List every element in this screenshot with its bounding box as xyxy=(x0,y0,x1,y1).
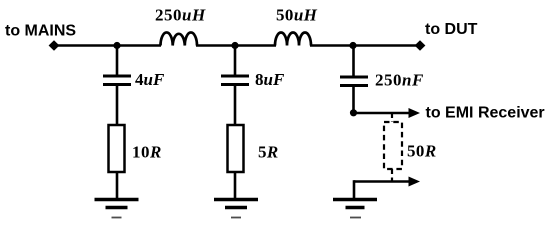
capacitor 250nF xyxy=(340,77,368,86)
svg-text:50R: 50R xyxy=(407,142,437,161)
resistor 10R xyxy=(109,125,125,172)
svg-text:8uF: 8uF xyxy=(255,70,285,89)
wire L1 to L2 xyxy=(196,44,276,47)
svg-text:250nF: 250nF xyxy=(375,71,424,90)
wire L2 to DUT xyxy=(310,44,416,47)
junction node line1 xyxy=(113,42,120,49)
wire mains to L1 xyxy=(56,44,161,47)
svg-text:50uH: 50uH xyxy=(276,6,318,25)
capacitor 4uF xyxy=(103,76,131,85)
wire R2 to ground xyxy=(234,171,237,199)
wire R1 to ground xyxy=(116,171,119,199)
ground G2 xyxy=(214,200,258,218)
terminal to MAINS xyxy=(49,40,60,51)
junction node EMI xyxy=(350,109,357,116)
wire node1 to C1 xyxy=(116,46,119,76)
junction node line2 xyxy=(231,42,238,49)
wire C1 to R1 xyxy=(116,86,119,126)
svg-text:10R: 10R xyxy=(132,143,162,162)
ground G1 xyxy=(95,200,139,218)
inductor 250uH xyxy=(161,32,198,45)
inductor 50uH xyxy=(275,33,311,46)
svg-text:250uH: 250uH xyxy=(155,6,206,25)
junction node line3 xyxy=(349,42,356,49)
wire return to ground xyxy=(353,180,356,199)
wire to EMI receiver arrow xyxy=(354,108,421,118)
terminal to DUT xyxy=(415,40,426,51)
wire node2 to C2 xyxy=(234,46,237,76)
svg-text:4uF: 4uF xyxy=(135,70,165,89)
resistor 5R xyxy=(228,125,244,172)
resistor 50R dashed xyxy=(384,113,402,181)
svg-text:to MAINS: to MAINS xyxy=(5,23,76,40)
ground G3 xyxy=(333,200,377,218)
wire node3 to C3 xyxy=(352,46,355,77)
wire EMI return arrow xyxy=(354,177,420,187)
capacitor 8uF xyxy=(221,76,249,85)
svg-text:to EMI Receiver: to EMI Receiver xyxy=(426,105,545,122)
svg-text:to DUT: to DUT xyxy=(425,21,478,38)
wire C2 to R2 xyxy=(234,86,237,126)
svg-text:5R: 5R xyxy=(258,143,279,162)
wire C3 to EMI node xyxy=(352,87,355,113)
